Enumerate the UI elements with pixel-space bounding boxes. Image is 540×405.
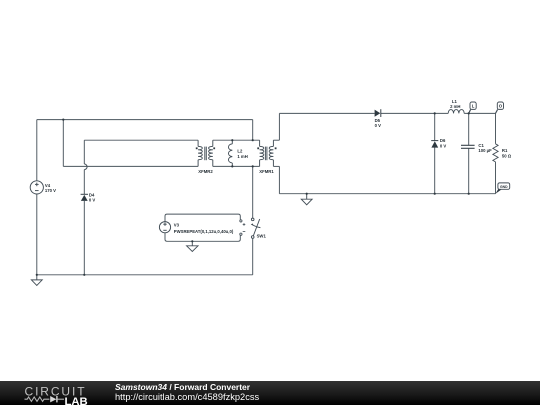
wire upper-left horizontal to XFMR2 top <box>84 139 198 141</box>
junction secondary ground <box>306 193 308 195</box>
wire left column below V4 <box>36 194 38 275</box>
resistor R1 <box>493 144 498 162</box>
voltage source V3 control box <box>165 214 240 241</box>
junction bottom rail V4 <box>36 274 38 276</box>
wire secondary bottom rail <box>279 193 495 195</box>
wire switch column lower <box>252 238 254 275</box>
svg-text:2 mH: 2 mH <box>450 104 460 109</box>
svg-text:0 V: 0 V <box>440 143 447 148</box>
wire XFMR1 secondary bottom horizontal <box>273 165 279 167</box>
label L1 value 2 mH <box>450 99 460 109</box>
wire R1 column lower <box>495 162 497 194</box>
ground secondary <box>301 194 312 205</box>
wire secondary top rail left <box>279 112 374 114</box>
wire R1 column upper <box>495 113 497 143</box>
transformer XFMR1 <box>260 140 274 166</box>
XFMR1 phase dot left <box>257 147 259 149</box>
junction L2 bottom <box>231 165 233 167</box>
wire primary top rail <box>37 119 253 121</box>
ground under V3 <box>187 241 198 251</box>
logo diode <box>50 396 56 402</box>
switch SW1 <box>251 218 260 238</box>
junction L2 top <box>231 139 233 141</box>
label L2 value 1 mH <box>237 149 247 159</box>
wire switch column upper <box>252 120 254 141</box>
wire lower-left horizontal to XFMR2 bottom <box>63 165 198 167</box>
V3 control terminal - <box>240 233 242 235</box>
junction D6 bottom <box>434 193 436 195</box>
wire C1 column lower <box>468 148 470 193</box>
label C1 value 100 uF <box>478 143 492 153</box>
wire secondary top rail right <box>464 112 495 114</box>
svg-text:0 V: 0 V <box>89 198 96 203</box>
wire switch column middle <box>252 166 254 218</box>
voltage source V4 <box>30 181 43 194</box>
voltage source V3 <box>159 222 170 233</box>
control polarity plus <box>243 223 246 226</box>
wire XFMR1 secondary bottom vertical <box>278 166 280 193</box>
svg-text:V3: V3 <box>174 223 180 228</box>
node flag O <box>496 102 504 113</box>
CircuitLab logo <box>24 384 96 405</box>
wire primary bottom rail <box>37 274 253 276</box>
junction XFMR1 left bottom <box>252 165 254 167</box>
wire vertical tap at x63 <box>62 120 64 167</box>
svg-text:SW1: SW1 <box>257 234 267 239</box>
capacitor C1 <box>461 145 475 148</box>
junction node L <box>468 112 470 114</box>
svg-text:1 mH: 1 mH <box>237 154 247 159</box>
diode D6 <box>431 141 438 148</box>
svg-text:L: L <box>472 104 475 109</box>
wire D4 column middle <box>83 170 85 195</box>
junction C1 bottom <box>468 193 470 195</box>
wire D6 column upper <box>434 113 436 140</box>
junction bottom rail D4 <box>83 274 85 276</box>
svg-text:0 V: 0 V <box>375 123 382 128</box>
XFMR2 phase dot left <box>196 147 198 149</box>
wire D4 column lower <box>83 201 85 275</box>
junction XFMR1 left top <box>252 139 254 141</box>
wire XFMR1 secondary top horizontal <box>273 139 279 141</box>
XFMR2 phase dot right <box>213 147 215 149</box>
label V3 value PWSREPEAT <box>174 223 234 235</box>
wire secondary top rail middle <box>381 112 448 114</box>
junction top rail tap <box>62 119 64 121</box>
label V4 value 170 V <box>45 183 56 193</box>
junction V3 ground tap <box>191 240 193 242</box>
svg-text:PWSREPEAT(0,1,12u,0,40u,0): PWSREPEAT(0,1,12u,0,40u,0) <box>174 229 234 234</box>
svg-text:XFMR1: XFMR1 <box>259 169 274 174</box>
junction D6 top <box>434 112 436 114</box>
svg-text:170 V: 170 V <box>45 188 56 193</box>
svg-text:XFMR2: XFMR2 <box>198 169 213 174</box>
V3 control terminal + <box>240 220 242 222</box>
label D6 value 0 V <box>440 138 447 148</box>
node flag GND <box>496 183 510 194</box>
wire hop over crossing <box>84 164 87 170</box>
ground primary left <box>31 275 42 286</box>
wire left column above V4 <box>36 120 38 181</box>
diode D4 <box>81 194 88 201</box>
wire XFMR2 to XFMR1 bottom <box>213 165 260 167</box>
wire C1 column upper <box>468 113 470 145</box>
footer bar <box>0 381 540 405</box>
inductor L1 <box>448 110 464 114</box>
wire D4 column upper <box>83 140 85 164</box>
label R1 value 50 Ohm <box>502 148 512 158</box>
svg-text:GND: GND <box>500 185 508 189</box>
inductor L2 <box>228 140 232 166</box>
svg-text:LAB: LAB <box>65 396 88 405</box>
diode D5 <box>375 109 381 117</box>
wire XFMR1 secondary top vertical <box>278 113 280 140</box>
XFMR1 phase dot right <box>275 147 277 149</box>
wire XFMR2 to XFMR1 top <box>213 139 260 141</box>
transformer XFMR2 <box>198 140 213 166</box>
wire D6 column lower <box>434 148 436 194</box>
logo resistor zigzag <box>25 397 50 401</box>
svg-text:50 Ω: 50 Ω <box>502 153 512 158</box>
SW1 arrow head <box>251 224 253 226</box>
svg-text:100 µF: 100 µF <box>478 148 492 153</box>
label D5 value 0 V <box>375 118 382 128</box>
label D4 value 0 V <box>89 192 96 202</box>
control polarity minus <box>243 231 246 233</box>
node flag L <box>469 102 477 113</box>
